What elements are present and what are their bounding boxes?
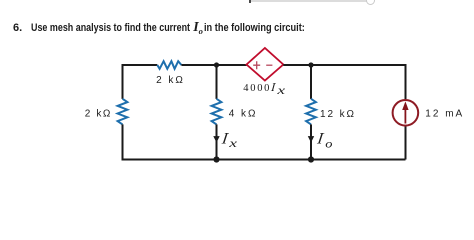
slider thumb circle	[366, 0, 375, 5]
resistor R4 12 kOhm (vertical)	[306, 99, 316, 125]
wire: 12k branch top	[310, 65, 312, 99]
slider track bar	[251, 0, 371, 2]
problem statement text part 1	[31, 23, 190, 34]
problem statement: item number 6.	[13, 23, 22, 34]
svg-text:4000: 4000	[243, 83, 271, 94]
current arrow Ix (down)	[213, 136, 219, 143]
wire: bottom right segment	[217, 159, 406, 161]
problem statement text part 2	[204, 23, 305, 34]
wire: 4k branch top	[216, 65, 218, 99]
wire: left bottom segment	[123, 124, 217, 159]
current source I1 circle	[393, 100, 419, 126]
current source arrow (up)	[404, 108, 406, 124]
problem statement variable Io	[193, 21, 198, 35]
svg-text:12 kΩ: 12 kΩ	[320, 109, 356, 120]
svg-text:o: o	[325, 136, 333, 150]
resistor R2 2 kOhm (left vertical)	[118, 99, 128, 125]
wire: 4k branch bottom with current arrow	[216, 124, 218, 159]
svg-text:x: x	[228, 137, 237, 150]
slider position marker	[249, 0, 251, 3]
plus sign of dependent source	[253, 61, 260, 69]
svg-text:4 kΩ: 4 kΩ	[229, 108, 258, 119]
current arrow Io (down)	[308, 136, 314, 143]
wire: top-left segment	[123, 65, 158, 99]
node D junction dot (bottom of 12k branch)	[308, 156, 314, 162]
node A junction dot (top of 4k branch)	[214, 62, 219, 67]
svg-text:x: x	[276, 85, 285, 98]
node B junction dot (top of 12k branch)	[308, 62, 313, 67]
node C junction dot (bottom of 4k branch)	[213, 156, 219, 162]
wire: 12k branch bottom with current arrow	[310, 124, 312, 159]
svg-text:2 kΩ: 2 kΩ	[85, 109, 112, 120]
svg-text:2 kΩ: 2 kΩ	[156, 75, 185, 86]
resistor R1 2 kOhm (top horizontal)	[157, 61, 181, 69]
wire: right branch lower	[405, 126, 407, 160]
svg-text:12 mA: 12 mA	[425, 109, 464, 120]
minus sign of dependent source	[266, 64, 272, 66]
wire: top middle segment to dependent source	[181, 64, 246, 66]
resistor R3 4 kOhm (middle vertical)	[212, 99, 222, 125]
wire: top right segment	[283, 65, 405, 99]
dependent source U1 diamond	[247, 48, 284, 81]
